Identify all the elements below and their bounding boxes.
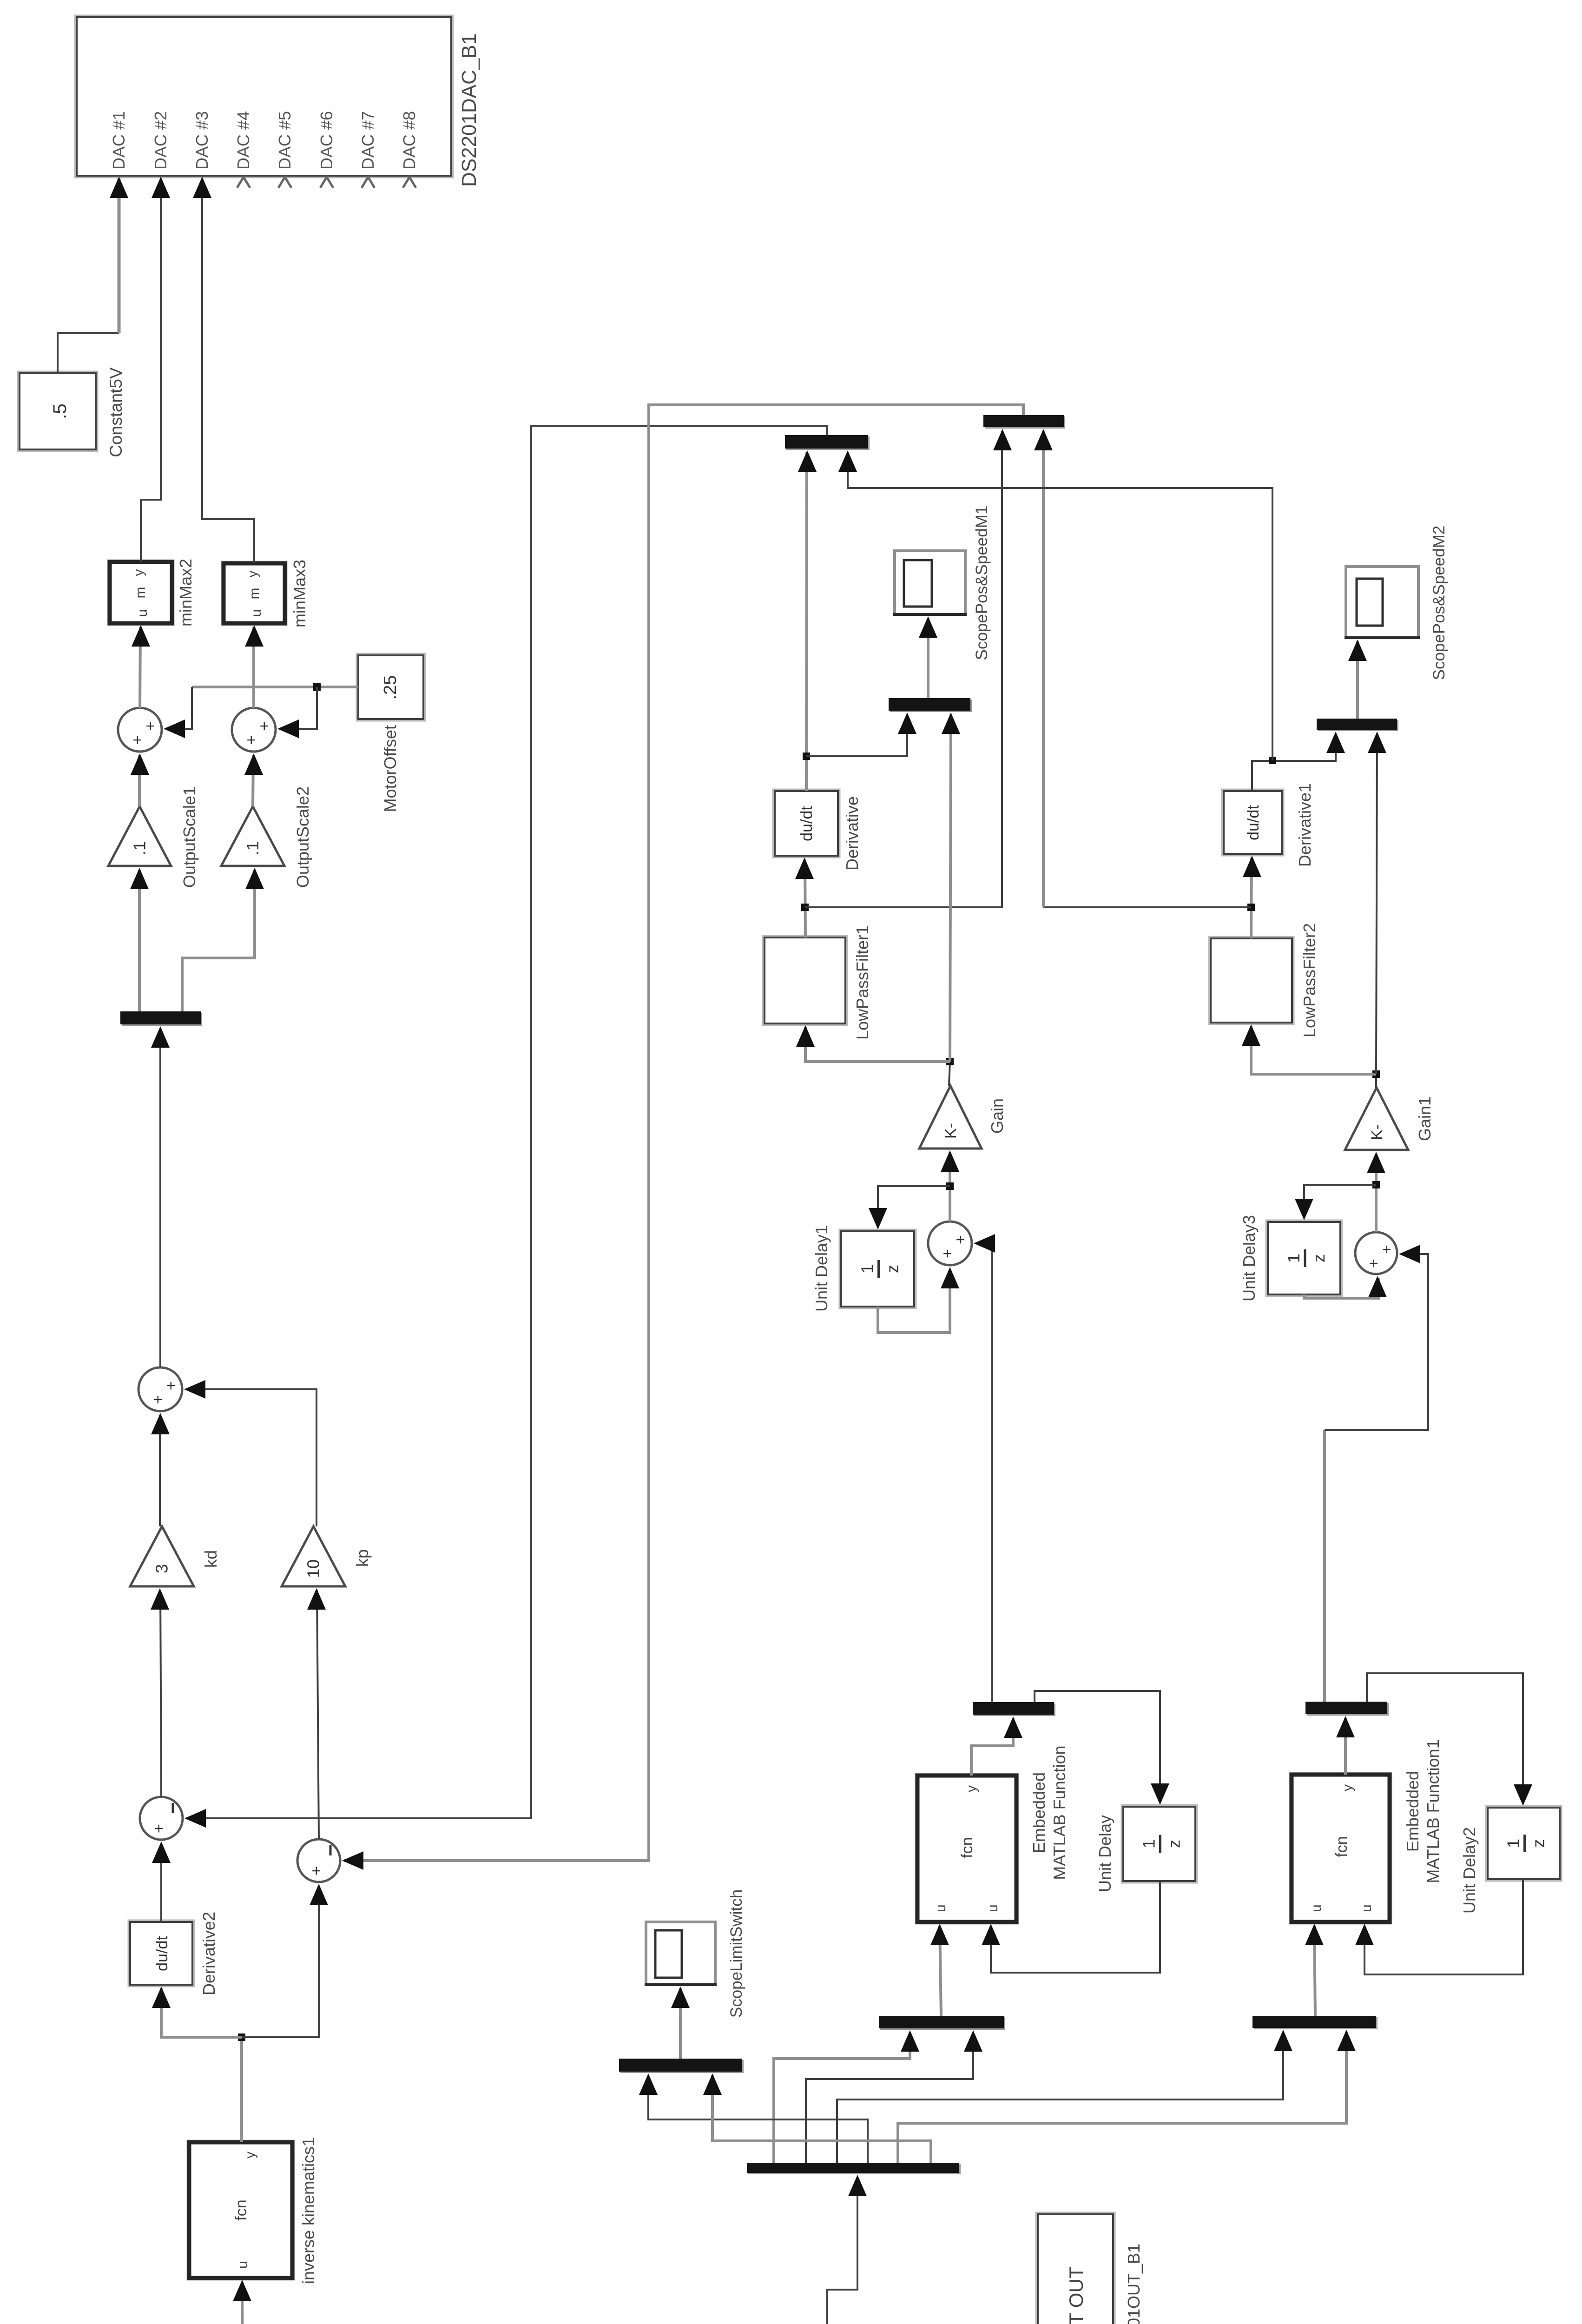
scope ScopePos&SpeedM1 bbox=[895, 551, 965, 614]
wire Demux -> OutputScale1 bbox=[138, 870, 141, 1011]
svg-text:Unit Delay3: Unit Delay3 bbox=[1239, 1215, 1259, 1301]
svg-text:Unit Delay2: Unit Delay2 bbox=[1460, 1827, 1479, 1914]
svg-text:MATLAB Function: MATLAB Function bbox=[1050, 1745, 1069, 1880]
svg-text:1: 1 bbox=[1504, 1839, 1523, 1848]
mux MuxH2 (bits to EMF M2) bbox=[1254, 2017, 1378, 2029]
wire MuxF -> Unit Delay2 bbox=[1367, 1673, 1523, 1804]
block LowPassFilter1 bbox=[763, 936, 847, 1025]
svg-text:z: z bbox=[1529, 1839, 1548, 1848]
svg-text:y: y bbox=[1340, 1784, 1355, 1791]
svg-text:u: u bbox=[985, 1904, 1001, 1912]
wire Demux -> OutputScale2 bbox=[182, 870, 255, 1011]
svg-text:z: z bbox=[1165, 1840, 1184, 1848]
svg-text:Embedded: Embedded bbox=[1403, 1771, 1422, 1852]
mux MuxH (bits to EMF M1) bbox=[880, 2017, 1005, 2030]
svg-text:du/dt: du/dt bbox=[798, 806, 816, 841]
svg-text:+: + bbox=[1365, 1259, 1383, 1268]
mux MuxC (scope M1 mux) bbox=[890, 700, 972, 712]
block Unit Delay3 bbox=[1266, 1221, 1342, 1296]
svg-text:Derivative1: Derivative1 bbox=[1295, 783, 1314, 867]
svg-text:u: u bbox=[933, 1904, 949, 1912]
svg-text:.25: .25 bbox=[381, 675, 400, 700]
svg-text:DAC #5: DAC #5 bbox=[275, 111, 294, 170]
svg-text:Gain1: Gain1 bbox=[1415, 1096, 1434, 1141]
mux MuxG (limit switches) bbox=[620, 2060, 744, 2073]
svg-text:y: y bbox=[131, 569, 146, 576]
svg-text:minMax3: minMax3 bbox=[290, 560, 309, 627]
svg-text:z: z bbox=[1309, 1254, 1328, 1262]
svg-text:Derivative2: Derivative2 bbox=[199, 1912, 218, 1995]
svg-text:du/dt: du/dt bbox=[153, 1936, 171, 1971]
svg-text:10: 10 bbox=[304, 1559, 323, 1578]
block Unit Delay2 bbox=[1486, 1806, 1561, 1881]
svg-text:fcn: fcn bbox=[958, 1837, 976, 1858]
svg-text:MATLAB Function1: MATLAB Function1 bbox=[1424, 1739, 1443, 1883]
unconnected DAC input port marks #4-#8 bbox=[237, 177, 250, 188]
wire Sum1 -> minMax2 bbox=[140, 627, 140, 708]
svg-text:K-: K- bbox=[942, 1123, 960, 1139]
wire MuxI out6 -> MuxG right bbox=[712, 2075, 931, 2163]
wire MuxA -> Sum4 bottom (long feedback) bbox=[186, 426, 827, 1818]
block DS2201DAC_B1 (DAC output board) bbox=[75, 16, 453, 177]
wire Unit Delay3 -> Sum7 left bbox=[1304, 1278, 1378, 1298]
wire kd -> Sum3 bbox=[159, 1415, 161, 1526]
wire Constant5V -> DAC #1 bbox=[58, 333, 119, 373]
wire OutputScale1 -> Sum1 bbox=[138, 755, 141, 806]
svg-text:u: u bbox=[1359, 1904, 1374, 1912]
wire MuxC -> ScopePos&SpeedM1 bbox=[927, 618, 929, 698]
wire Derivative1 -> MuxD left, branch to MuxA right bbox=[1252, 733, 1336, 791]
svg-text:ScopePos&SpeedM2: ScopePos&SpeedM2 bbox=[1430, 526, 1448, 680]
gain Gain1 (K-) bbox=[1345, 1088, 1408, 1150]
gain OutputScale2 (.1) bbox=[221, 806, 284, 866]
svg-text:+: + bbox=[939, 1249, 956, 1258]
wire Unit Delay2 -> EMF1 second input bbox=[1364, 1879, 1523, 1974]
block Derivative (du/dt) M1 bbox=[773, 790, 839, 857]
wire OutputScale2 -> Sum2 bbox=[253, 755, 253, 806]
wire minMax2 -> DAC #2 bbox=[141, 178, 161, 562]
demux DemuxPID (splits control to two motors) bbox=[122, 1013, 202, 1026]
svg-text:+: + bbox=[243, 735, 260, 745]
svg-text:Unit Delay: Unit Delay bbox=[1095, 1815, 1114, 1892]
wire Sum7 -> Gain1, branch to Unit Delay3 input bbox=[1375, 1154, 1378, 1232]
svg-text:DAC #6: DAC #6 bbox=[317, 111, 336, 170]
wire demux M2 -> Sum7 bottom (encoder count) bbox=[1323, 1430, 1326, 1702]
svg-text:K-: K- bbox=[1368, 1124, 1386, 1140]
svg-text:OutputScale1: OutputScale1 bbox=[180, 786, 199, 888]
svg-text:DS2201DAC_B1: DS2201DAC_B1 bbox=[458, 33, 481, 187]
wire MuxI out1 -> MuxH left bbox=[774, 2032, 910, 2163]
svg-text:kp: kp bbox=[353, 1549, 372, 1567]
svg-text:+: + bbox=[256, 721, 273, 731]
svg-text:Constant5V: Constant5V bbox=[106, 367, 125, 457]
svg-text:1: 1 bbox=[1284, 1254, 1303, 1263]
mux MuxD (scope M2 mux) bbox=[1318, 720, 1398, 731]
svg-text:LowPassFilter2: LowPassFilter2 bbox=[1300, 923, 1319, 1037]
svg-text:+: + bbox=[308, 1866, 325, 1875]
svg-text:Derivative: Derivative bbox=[843, 796, 862, 871]
svg-text:m: m bbox=[247, 588, 262, 600]
svg-text:DAC #7: DAC #7 bbox=[358, 111, 377, 170]
block Embedded MATLAB Function1 (M2) bbox=[1290, 1773, 1391, 1923]
sum Sum5 (position error, + -) bbox=[297, 1839, 340, 1882]
svg-text:DAC #3: DAC #3 bbox=[192, 111, 211, 170]
svg-text:kd: kd bbox=[201, 1550, 220, 1568]
wire Sum2 -> minMax3 bbox=[252, 627, 255, 708]
svg-text:OutputScale2: OutputScale2 bbox=[293, 786, 312, 888]
svg-text:Gain: Gain bbox=[988, 1098, 1007, 1134]
wire Desired -> inverse kinematics1 bbox=[242, 2282, 243, 2324]
svg-text:inverse kinematics1: inverse kinematics1 bbox=[299, 2137, 318, 2284]
svg-text:LowPassFilter1: LowPassFilter1 bbox=[853, 925, 872, 1040]
block Unit Delay bbox=[1122, 1805, 1197, 1882]
svg-text:DAC #8: DAC #8 bbox=[400, 111, 419, 170]
demux MuxI (BIT IN demux) bbox=[748, 2164, 961, 2174]
svg-text:+: + bbox=[149, 1395, 167, 1404]
svg-text:u: u bbox=[1309, 1904, 1324, 1912]
wire MuxI out2 -> MuxH right bbox=[806, 2032, 973, 2163]
wire LowPassFilter2 -> Derivative1, branch to MuxB right bbox=[1251, 858, 1252, 938]
svg-text:ScopeLimitSwitch: ScopeLimitSwitch bbox=[727, 1889, 745, 2018]
svg-text:+: + bbox=[129, 735, 146, 745]
svg-text:BIT OUT: BIT OUT bbox=[1065, 2267, 1087, 2324]
block Unit Delay1 bbox=[840, 1230, 916, 1308]
block minMax3 bbox=[222, 562, 286, 625]
svg-text:y: y bbox=[243, 2152, 258, 2159]
wire MuxI out5 -> MuxH2 right bbox=[898, 2032, 1346, 2163]
demux MuxF (M2 encoder demux) bbox=[1307, 1703, 1389, 1716]
sum Sum4 (speed error, + -) bbox=[140, 1797, 183, 1840]
svg-text:+: + bbox=[162, 1381, 180, 1390]
scope ScopeLimitSwitch bbox=[646, 1922, 715, 1985]
block Constant5V (.5) bbox=[18, 372, 97, 451]
wire MuxI out3 -> MuxH2 left bbox=[837, 2032, 1283, 2163]
gain kp (10) bbox=[282, 1526, 345, 1586]
sum Sum1 (OutputScale1 + MotorOffset) bbox=[118, 708, 162, 752]
demux MuxE (M1 encoder demux) bbox=[974, 1703, 1055, 1716]
block BIT OUT DS2201OUT_B1 bbox=[1036, 2213, 1114, 2324]
block Embedded MATLAB Function (M1) bbox=[916, 1774, 1018, 1923]
gain kd (3) bbox=[130, 1526, 194, 1586]
sum Sum3 (kd+kp) bbox=[138, 1367, 182, 1411]
svg-text:Unit Delay1: Unit Delay1 bbox=[812, 1225, 831, 1312]
svg-text:fcn: fcn bbox=[232, 2199, 250, 2220]
svg-text:+: + bbox=[150, 1824, 168, 1833]
wire Sum5 -> kp bbox=[317, 1590, 319, 1839]
svg-text:1: 1 bbox=[858, 1264, 877, 1274]
svg-text:fcn: fcn bbox=[1333, 1836, 1351, 1857]
wire Derivative -> MuxA left, branch to MuxC left bbox=[806, 452, 807, 791]
wire MuxH -> EMF input u bbox=[940, 1926, 941, 2016]
minus sign Sum4 bottom port bbox=[172, 1803, 174, 1813]
svg-text:DAC #2: DAC #2 bbox=[151, 111, 170, 170]
svg-text:DAC #4: DAC #4 bbox=[234, 111, 253, 170]
wire MuxH2 -> EMF1 input u bbox=[1314, 1926, 1315, 2016]
wire EMF1 y -> MuxF bbox=[1344, 1718, 1347, 1775]
svg-text:minMax2: minMax2 bbox=[176, 559, 195, 627]
svg-text:m: m bbox=[133, 587, 148, 599]
wire demux M1 -> Sum6 bottom (encoder count) bbox=[976, 1243, 992, 1702]
svg-text:.5: .5 bbox=[50, 403, 70, 419]
svg-text:+: + bbox=[142, 721, 159, 731]
wire Sum3 -> DemuxPID bbox=[159, 1028, 161, 1367]
scope ScopePos&SpeedM2 bbox=[1346, 567, 1418, 638]
block minMax2 bbox=[108, 561, 173, 625]
wire inverse kinematics1 -> junction -> Derivative2 and Sum5 bbox=[240, 2037, 243, 2142]
wire MuxD -> ScopePos&SpeedM2 bbox=[1356, 641, 1359, 719]
wire BIT IN -> MuxI bbox=[827, 2177, 857, 2324]
svg-text:3: 3 bbox=[152, 1564, 171, 1573]
svg-text:DAC #1: DAC #1 bbox=[109, 111, 128, 170]
mux MuxA (speed feedback M1,M2) bbox=[786, 436, 870, 450]
svg-text:.1: .1 bbox=[243, 841, 262, 855]
block MotorOffset (.25) bbox=[357, 654, 425, 720]
wire EMF y -> MuxE bbox=[971, 1718, 1013, 1776]
wire kp -> Sum3 bbox=[186, 1389, 316, 1526]
svg-text:du/dt: du/dt bbox=[1245, 805, 1262, 840]
gain Gain (K-) bbox=[919, 1086, 982, 1149]
svg-text:1: 1 bbox=[1140, 1839, 1159, 1849]
wire Derivative2 -> Sum4 bbox=[160, 1843, 162, 1922]
wire MotorOffset -> Sum1 and Sum2 bbox=[192, 686, 358, 688]
sum Sum7 (M2 position accumulator) bbox=[1355, 1232, 1397, 1274]
minus sign Sum5 bottom port bbox=[330, 1845, 332, 1855]
svg-text:y: y bbox=[245, 571, 260, 578]
block inverse kinematics1 bbox=[188, 2141, 294, 2279]
wire MuxE -> Unit Delay (store raw) bbox=[1035, 1691, 1160, 1803]
wire minMax3 -> DAC #3 bbox=[202, 178, 254, 563]
wire Sum4 -> kd bbox=[160, 1590, 161, 1797]
wire MuxI out4 -> MuxG left bbox=[648, 2075, 868, 2163]
wire LowPassFilter1 -> Derivative, branch to MuxB left bbox=[805, 859, 805, 938]
svg-text:Embedded: Embedded bbox=[1029, 1772, 1048, 1853]
svg-text:u: u bbox=[235, 2261, 250, 2269]
svg-text:y: y bbox=[964, 1785, 979, 1792]
svg-text:+: + bbox=[952, 1235, 969, 1244]
svg-text:z: z bbox=[883, 1265, 902, 1273]
svg-text:.1: .1 bbox=[130, 841, 149, 855]
block Derivative1 (du/dt) M2 bbox=[1222, 790, 1283, 855]
svg-text:u: u bbox=[135, 609, 150, 617]
svg-text:MotorOffset: MotorOffset bbox=[381, 725, 400, 812]
svg-text:u: u bbox=[249, 609, 264, 617]
wire Unit Delay -> EMF second input bbox=[991, 1881, 1160, 1973]
svg-text:ScopePos&SpeedM1: ScopePos&SpeedM1 bbox=[973, 506, 991, 660]
gain OutputScale1 (.1) bbox=[108, 806, 171, 866]
wire Sum6 -> Gain, branch to Unit Delay1 input bbox=[949, 1152, 951, 1221]
sum Sum6 (M1 position accumulator) bbox=[928, 1221, 972, 1265]
wire Unit Delay1 -> Sum6 left bbox=[878, 1269, 950, 1333]
block Derivative2 (du/dt) bbox=[129, 1921, 194, 1986]
mux MuxB (position feedback M1,M2) bbox=[985, 416, 1065, 429]
wire MuxG -> ScopeLimitSwitch bbox=[679, 1988, 682, 2059]
sum Sum2 (OutputScale2 + MotorOffset) bbox=[232, 708, 276, 752]
svg-text:+: + bbox=[1378, 1245, 1396, 1254]
wire Gain1 -> junction -> LowPassFilter2 and MuxD right bbox=[1375, 1074, 1377, 1088]
block LowPassFilter2 bbox=[1209, 937, 1293, 1024]
wire MuxB -> Sum5 bottom (long feedback) bbox=[344, 405, 1023, 1861]
svg-text:DS2201OUT_B1: DS2201OUT_B1 bbox=[1124, 2244, 1143, 2324]
wire Gain -> junction -> LowPassFilter1 and MuxC right bbox=[949, 1062, 950, 1086]
